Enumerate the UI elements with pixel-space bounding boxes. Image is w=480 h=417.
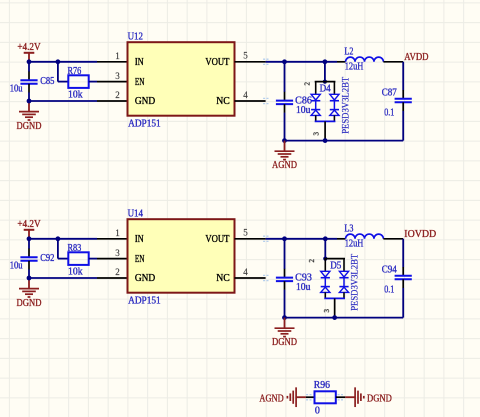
svg-text:GND: GND <box>135 273 155 284</box>
svg-text:4: 4 <box>243 90 248 100</box>
svg-text:IN: IN <box>135 234 144 245</box>
svg-text:DGND: DGND <box>367 393 392 404</box>
svg-text:IOVDD: IOVDD <box>404 229 436 240</box>
svg-text:DGND: DGND <box>272 337 297 348</box>
svg-text:NC: NC <box>216 96 230 107</box>
svg-text:R96: R96 <box>314 380 330 391</box>
svg-text:5: 5 <box>243 228 248 238</box>
svg-text:10k: 10k <box>68 90 83 101</box>
svg-text:D4: D4 <box>320 83 331 94</box>
svg-text:C92: C92 <box>40 253 54 264</box>
svg-text:2: 2 <box>303 82 311 86</box>
svg-text:2: 2 <box>308 259 316 263</box>
svg-text:IN: IN <box>135 57 144 68</box>
svg-text:1: 1 <box>115 51 120 61</box>
svg-text:2: 2 <box>115 267 120 277</box>
svg-text:4: 4 <box>243 267 248 277</box>
svg-text:C94: C94 <box>382 264 397 275</box>
svg-text:C87: C87 <box>382 87 397 98</box>
svg-text:C85: C85 <box>40 76 54 87</box>
svg-text:5: 5 <box>243 51 248 61</box>
svg-text:L3: L3 <box>344 224 353 235</box>
svg-text:3: 3 <box>312 131 320 135</box>
svg-text:+4.2V: +4.2V <box>17 219 41 230</box>
svg-text:GND: GND <box>135 96 155 107</box>
svg-text:10k: 10k <box>68 267 83 278</box>
svg-text:L2: L2 <box>344 47 353 58</box>
svg-text:U14: U14 <box>128 209 143 220</box>
svg-text:0: 0 <box>315 405 320 416</box>
svg-text:AGND: AGND <box>272 160 297 171</box>
svg-text:3: 3 <box>115 248 120 258</box>
svg-text:0.1: 0.1 <box>384 107 394 118</box>
svg-text:ADP151: ADP151 <box>128 118 161 129</box>
svg-text:DGND: DGND <box>17 298 42 309</box>
svg-text:+4.2V: +4.2V <box>17 42 41 53</box>
svg-text:VOUT: VOUT <box>205 57 229 68</box>
svg-text:PESD3V3L2BT: PESD3V3L2BT <box>350 253 360 310</box>
svg-text:NC: NC <box>216 273 230 284</box>
svg-text:AGND: AGND <box>259 393 283 404</box>
svg-text:2: 2 <box>115 90 120 100</box>
svg-text:10u: 10u <box>296 282 310 293</box>
svg-text:PESD3V3L2BT: PESD3V3L2BT <box>340 76 350 133</box>
svg-text:R83: R83 <box>68 243 82 254</box>
svg-text:12uH: 12uH <box>345 61 364 72</box>
svg-text:10u: 10u <box>10 261 23 272</box>
svg-text:AVDD: AVDD <box>404 52 428 63</box>
svg-text:U12: U12 <box>128 32 143 43</box>
svg-text:EN: EN <box>135 254 145 265</box>
svg-text:10u: 10u <box>296 105 310 116</box>
svg-text:1: 1 <box>115 228 120 238</box>
svg-text:D5: D5 <box>330 260 341 271</box>
svg-text:3: 3 <box>323 308 331 312</box>
svg-text:10u: 10u <box>10 84 23 95</box>
svg-text:VOUT: VOUT <box>205 234 229 245</box>
svg-text:0.1: 0.1 <box>384 284 394 295</box>
svg-text:12uH: 12uH <box>345 238 364 249</box>
svg-text:ADP151: ADP151 <box>128 295 161 306</box>
svg-text:DGND: DGND <box>17 121 42 132</box>
svg-text:R76: R76 <box>68 66 82 77</box>
svg-text:EN: EN <box>135 77 145 88</box>
svg-text:3: 3 <box>115 71 120 81</box>
